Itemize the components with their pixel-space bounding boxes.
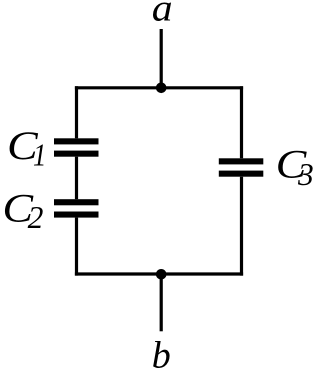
svg-text:b: b: [152, 335, 171, 371]
svg-text:2: 2: [28, 200, 44, 235]
svg-text:a: a: [152, 0, 173, 29]
svg-text:3: 3: [297, 157, 314, 192]
svg-text:1: 1: [33, 138, 46, 172]
